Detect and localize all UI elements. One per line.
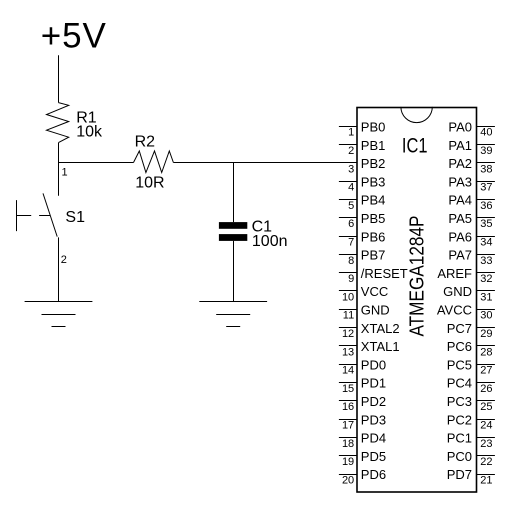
svg-text:PA6: PA6	[448, 229, 472, 244]
svg-text:IC1: IC1	[402, 134, 428, 157]
pin 40 PA0	[448, 120, 495, 139]
svg-text:PA0: PA0	[448, 120, 472, 135]
svg-text:PD6: PD6	[361, 467, 386, 482]
wire S1 to ground	[58, 237, 60, 301]
svg-text:19: 19	[342, 456, 354, 468]
svg-text:2: 2	[348, 145, 354, 157]
pin 15 PD1	[339, 376, 386, 395]
pin 18 PD4	[339, 431, 386, 450]
svg-text:PD1: PD1	[361, 376, 386, 391]
svg-text:XTAL2: XTAL2	[361, 321, 400, 336]
wire node 1 to R2	[58, 162, 134, 164]
pin 6 PB5	[339, 211, 385, 230]
pin 24 PC2	[447, 412, 495, 431]
svg-text:100n: 100n	[252, 233, 288, 250]
svg-text:/RESET: /RESET	[361, 266, 408, 281]
wire node to C1	[233, 163, 235, 223]
pin 14 PD0	[339, 357, 386, 376]
svg-text:R2: R2	[135, 134, 156, 151]
svg-text:25: 25	[480, 401, 492, 413]
pin 29 PC7	[447, 321, 495, 340]
svg-text:10k: 10k	[76, 124, 103, 141]
svg-text:4: 4	[348, 182, 354, 194]
svg-text:PB7: PB7	[361, 248, 386, 263]
pin 20 PD6	[339, 467, 386, 486]
svg-text:15: 15	[342, 383, 354, 395]
svg-text:28: 28	[480, 346, 492, 358]
svg-text:29: 29	[480, 328, 492, 340]
svg-text:35: 35	[480, 218, 492, 230]
svg-text:PD5: PD5	[361, 449, 386, 464]
svg-text:17: 17	[342, 420, 354, 432]
svg-text:26: 26	[480, 383, 492, 395]
svg-text:ATMEGA1284P: ATMEGA1284P	[407, 216, 429, 337]
pin 11 GND	[339, 303, 390, 322]
pin 8 PB7	[339, 248, 385, 267]
svg-text:12: 12	[342, 328, 354, 340]
svg-text:24: 24	[480, 420, 492, 432]
pin 22 PC0	[447, 449, 495, 468]
svg-text:PB2: PB2	[361, 156, 386, 171]
svg-text:GND: GND	[361, 303, 390, 318]
wire +5V to R1	[58, 55, 60, 102]
pin 23 PC1	[447, 431, 495, 450]
pin 19 PD5	[339, 449, 386, 468]
capacitor C1	[219, 222, 247, 241]
svg-text:3: 3	[348, 163, 354, 175]
pin 13 XTAL1	[339, 339, 400, 358]
svg-text:PD2: PD2	[361, 394, 386, 409]
svg-text:PB1: PB1	[361, 138, 386, 153]
wire C1 to ground	[233, 241, 235, 302]
svg-text:1: 1	[62, 167, 68, 179]
pin 5 PB4	[339, 193, 385, 212]
svg-text:6: 6	[348, 218, 354, 230]
pin 16 PD2	[339, 394, 386, 413]
svg-text:23: 23	[480, 438, 492, 450]
svg-text:10: 10	[342, 291, 354, 303]
pin 21 PD7	[447, 467, 495, 486]
svg-text:33: 33	[480, 255, 492, 267]
svg-text:AREF: AREF	[437, 266, 472, 281]
svg-text:20: 20	[342, 474, 354, 486]
svg-text:GND: GND	[443, 284, 472, 299]
svg-text:PA2: PA2	[448, 156, 472, 171]
svg-text:PA3: PA3	[448, 174, 472, 189]
svg-text:37: 37	[480, 182, 492, 194]
svg-text:8: 8	[348, 255, 354, 267]
svg-text:1: 1	[348, 127, 354, 139]
svg-text:10R: 10R	[135, 174, 164, 191]
svg-text:PC4: PC4	[447, 376, 472, 391]
svg-text:PC5: PC5	[447, 357, 472, 372]
svg-text:27: 27	[480, 365, 492, 377]
pin 36 PA4	[448, 193, 495, 212]
svg-text:PB0: PB0	[361, 120, 386, 135]
svg-text:XTAL1: XTAL1	[361, 339, 400, 354]
pin 1 PB0	[339, 120, 385, 139]
svg-text:PD0: PD0	[361, 357, 386, 372]
svg-text:9: 9	[348, 273, 354, 285]
resistor R2	[134, 151, 174, 173]
svg-text:AVCC: AVCC	[437, 303, 472, 318]
pin 25 PC3	[447, 394, 495, 413]
pin 7 PB6	[339, 229, 385, 248]
svg-text:PD4: PD4	[361, 431, 386, 446]
svg-text:2: 2	[61, 254, 67, 266]
svg-text:14: 14	[342, 365, 354, 377]
pin 4 PB3	[339, 174, 385, 193]
pin 33 PA7	[448, 248, 495, 267]
svg-text:PD3: PD3	[361, 412, 386, 427]
switch S1	[17, 193, 58, 236]
svg-text:PB3: PB3	[361, 174, 386, 189]
pin 2 PB1	[339, 138, 385, 157]
svg-text:38: 38	[480, 163, 492, 175]
pin 32 AREF	[437, 266, 495, 285]
pin 30 AVCC	[437, 303, 495, 322]
svg-text:PB4: PB4	[361, 193, 386, 208]
wire R1 to node 1	[58, 143, 60, 163]
svg-text:PA5: PA5	[448, 211, 472, 226]
svg-text:PC2: PC2	[447, 412, 472, 427]
IC1 body (ATMEGA1284P DIP-40)	[357, 107, 477, 492]
svg-text:18: 18	[342, 438, 354, 450]
svg-text:+5V: +5V	[41, 17, 107, 56]
svg-text:PC3: PC3	[447, 394, 472, 409]
pin 17 PD3	[339, 412, 386, 431]
svg-text:22: 22	[480, 456, 492, 468]
pin 3 PB2	[339, 156, 385, 175]
pin 27 PC5	[447, 357, 495, 376]
svg-text:31: 31	[480, 291, 492, 303]
svg-text:PA4: PA4	[448, 193, 472, 208]
svg-text:PC6: PC6	[447, 339, 472, 354]
pin 38 PA2	[448, 156, 495, 175]
svg-text:34: 34	[480, 237, 492, 249]
pin 12 XTAL2	[339, 321, 400, 340]
svg-text:7: 7	[348, 237, 354, 249]
svg-text:32: 32	[480, 273, 492, 285]
ground GND1	[25, 302, 93, 327]
wire node 1 to S1	[58, 163, 60, 196]
svg-text:VCC: VCC	[361, 284, 388, 299]
pin 26 PC4	[447, 376, 495, 395]
svg-text:PC7: PC7	[447, 321, 472, 336]
svg-text:PC1: PC1	[447, 431, 472, 446]
wire R2 to IC1 pin 3	[173, 162, 339, 164]
svg-text:11: 11	[343, 310, 354, 322]
pin 34 PA6	[448, 229, 495, 248]
pin 10 VCC	[339, 284, 388, 303]
svg-text:5: 5	[348, 200, 354, 212]
svg-text:16: 16	[342, 401, 354, 413]
pin 28 PC6	[447, 339, 495, 358]
svg-text:40: 40	[480, 127, 492, 139]
svg-text:PA1: PA1	[448, 138, 472, 153]
svg-text:PB5: PB5	[361, 211, 386, 226]
svg-text:30: 30	[480, 310, 492, 322]
svg-text:PA7: PA7	[448, 248, 472, 263]
svg-text:PC0: PC0	[447, 449, 472, 464]
resistor R1	[47, 103, 69, 143]
pin 37 PA3	[448, 174, 495, 193]
pin 31 GND	[443, 284, 495, 303]
ground GND2	[199, 302, 267, 327]
svg-text:39: 39	[480, 145, 492, 157]
svg-text:36: 36	[480, 200, 492, 212]
svg-text:PB6: PB6	[361, 229, 386, 244]
pin 39 PA1	[448, 138, 495, 157]
svg-text:21: 21	[480, 474, 492, 486]
svg-text:PD7: PD7	[447, 467, 472, 482]
pin 9 /RESET	[339, 266, 408, 285]
svg-text:S1: S1	[65, 209, 85, 226]
pin 35 PA5	[448, 211, 495, 230]
svg-text:13: 13	[342, 346, 354, 358]
